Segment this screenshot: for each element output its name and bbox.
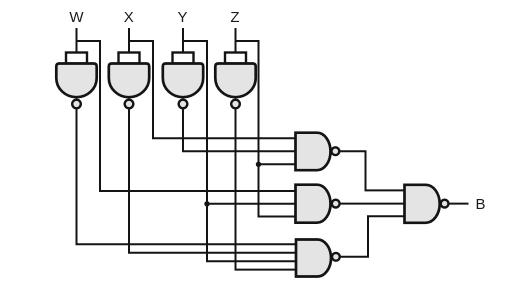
- wire Y branch to U7 input 3: [183, 41, 296, 261]
- NAND gate U5 bubble: [332, 147, 340, 155]
- NAND inverter U3 body: [163, 64, 203, 98]
- svg-text:X: X: [124, 9, 134, 26]
- junction dot Z branch: [256, 162, 261, 167]
- NAND inverter U2 tie bar: [119, 53, 140, 64]
- wire U2 output to U7 input 2: [129, 109, 296, 252]
- NAND gate U5 body: [296, 133, 331, 171]
- wire Z branch to U5 input 3: [259, 163, 296, 165]
- NAND gate U7 bubble: [332, 253, 340, 261]
- NAND gate U8 bubble: [441, 200, 449, 208]
- wire Y branch to U6 input 2: [207, 203, 296, 205]
- wire U6 output to U8 input 2: [339, 203, 404, 205]
- wire U1 output to U7 input 1: [77, 109, 297, 244]
- wire U4 output to U7 input 4: [236, 109, 297, 269]
- wire Z input: [235, 28, 237, 54]
- NAND inverter U2 bubble: [125, 100, 134, 109]
- wire X input: [128, 28, 130, 54]
- NAND gate U7 body: [296, 240, 331, 277]
- svg-text:W: W: [69, 9, 84, 26]
- NAND inverter U1 body: [56, 64, 96, 98]
- wire W input: [76, 28, 78, 54]
- wire U8 output B: [448, 203, 468, 205]
- wire X branch to U5 input 1: [129, 41, 296, 138]
- wire W branch to U6 input 1: [77, 41, 296, 191]
- NAND inverter U1 bubble: [72, 100, 81, 109]
- NAND gate U6 bubble: [332, 200, 340, 208]
- wire U3 output to U5 input 2: [183, 109, 296, 151]
- NAND inverter U2 body: [109, 64, 149, 98]
- wire Y input: [182, 28, 184, 54]
- NAND inverter U3 bubble: [179, 100, 188, 109]
- wire U7 output to U8 input 3: [340, 216, 405, 257]
- NAND inverter U1 tie bar: [66, 53, 87, 64]
- junction dot Y branch: [204, 201, 209, 206]
- wire U5 output to U8 input 1: [339, 151, 405, 190]
- wire Z branch to U6 input 3: [236, 41, 296, 217]
- svg-text:B: B: [475, 196, 485, 213]
- NAND inverter U4 body: [215, 64, 255, 98]
- NAND gate U8 body: [405, 185, 440, 223]
- NAND inverter U4 bubble: [231, 100, 240, 109]
- NAND gate U6 body: [296, 185, 331, 223]
- NAND inverter U3 tie bar: [173, 53, 194, 64]
- NAND inverter U4 tie bar: [225, 53, 246, 64]
- svg-text:Z: Z: [230, 9, 239, 26]
- svg-text:Y: Y: [177, 9, 187, 26]
